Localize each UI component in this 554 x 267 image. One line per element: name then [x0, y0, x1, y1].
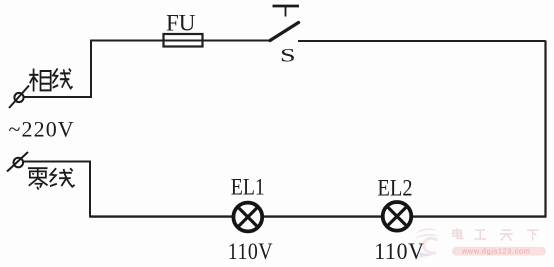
- label 相线 (phase line) char 相: [29, 69, 50, 92]
- label 相线 (phase line) char 线: [53, 69, 73, 89]
- wire: top horizontal, right of switch to top-right corner: [298, 40, 546, 42]
- svg-text:110V: 110V: [374, 238, 424, 264]
- lamp EL2 circle: [383, 202, 412, 231]
- switch S center stub: [285, 7, 287, 17]
- watermark url pill: [452, 247, 546, 256]
- switch S top bar: [273, 5, 300, 8]
- watermark text 电工天下 char 电: [453, 228, 463, 238]
- svg-text:EL1: EL1: [231, 174, 265, 200]
- svg-text:~220V: ~220V: [9, 116, 75, 141]
- label 零线 (neutral line) char 零: [28, 168, 48, 189]
- watermark text 电工天下 char 工: [475, 230, 486, 239]
- watermark text 电工天下 char 下: [527, 230, 539, 240]
- terminal: neutral circle: [13, 158, 23, 168]
- lamp EL1 circle: [233, 203, 262, 232]
- terminal: phase slash: [9, 86, 29, 109]
- terminal: neutral slash: [7, 152, 28, 172]
- wire: neutral terminal horizontal lead: [23, 161, 91, 163]
- fuse FU body: [164, 34, 203, 47]
- svg-text:EL2: EL2: [377, 174, 412, 201]
- lamp EL1 cross: [238, 207, 258, 227]
- wire: top horizontal, left of switch: [91, 40, 271, 42]
- watermark logo swirl: [415, 228, 439, 257]
- wire: bottom horizontal: [90, 215, 546, 217]
- wire: right vertical side: [544, 41, 546, 218]
- label 零线 (neutral line) char 线: [50, 168, 75, 187]
- wire: left vertical from phase line up to top wire: [90, 40, 92, 98]
- svg-text:FU: FU: [166, 11, 196, 36]
- watermark text 电工天下 char 天: [500, 230, 513, 240]
- svg-text:110V: 110V: [228, 238, 273, 264]
- wire: phase terminal horizontal lead: [24, 96, 93, 98]
- lamp EL2 cross: [387, 206, 407, 226]
- terminal: phase circle: [14, 93, 23, 102]
- switch S blade: [270, 23, 299, 41]
- svg-text:S: S: [280, 45, 296, 66]
- svg-text:www.dgjs123.com: www.dgjs123.com: [461, 247, 530, 256]
- wire: left vertical from neutral line down to bottom wire: [89, 162, 91, 218]
